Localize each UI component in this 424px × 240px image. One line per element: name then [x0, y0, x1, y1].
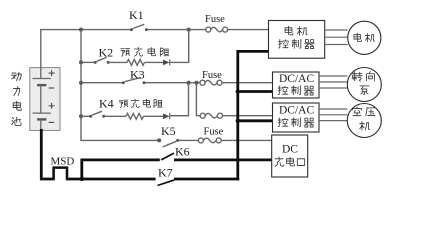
wire negative branch to DC/AC 2: [238, 119, 273, 122]
wire D2 to riser: [170, 115, 189, 117]
label K6: [175, 145, 190, 159]
fuse F3: [200, 113, 222, 118]
svg-text:K2: K2: [99, 46, 114, 60]
fuse F1: [206, 27, 228, 32]
svg-text:K3: K3: [130, 68, 145, 82]
wire K4 to R2: [104, 115, 126, 117]
box U4 DC charge port: [272, 135, 308, 177]
wire K6 to DC charge port (thick): [174, 158, 272, 161]
resistor R1: [127, 60, 144, 66]
wire F3 feed riser: [196, 83, 200, 116]
label DC/AC 2: [278, 105, 315, 128]
label K1: [129, 8, 144, 22]
wire K7 to negative bus corner (thick): [174, 178, 239, 181]
wire R2 to D2: [144, 115, 164, 117]
fuse F4: [198, 138, 221, 143]
node F3 feed: [194, 81, 198, 85]
label DC/AC 1: [278, 73, 315, 95]
wire K5 to fuse F4: [179, 139, 198, 141]
label 电机控制器: [278, 26, 314, 48]
label K5: [161, 124, 176, 138]
svg-text:DC/AC: DC/AC: [279, 105, 314, 117]
svg-text:K4: K4: [99, 97, 114, 111]
wire K3 to fuse F2: [146, 82, 201, 84]
contactor K2: [94, 57, 110, 64]
label DC 充电口: [275, 144, 305, 167]
svg-text:Fuse: Fuse: [205, 14, 225, 25]
label 转向泵: [352, 71, 374, 94]
wire left precharge bus vertical: [81, 30, 159, 141]
wire K1 to fuse F1: [148, 29, 206, 31]
svg-text:K1: K1: [129, 8, 144, 22]
label 动力电池: [11, 72, 21, 126]
node K5 tap: [157, 138, 161, 142]
node K3 tap: [79, 81, 83, 85]
negative bus vertical (thick): [238, 51, 269, 180]
wire bus to K4: [81, 115, 91, 117]
label 预充电阻 R1: [121, 47, 169, 56]
MSD disconnect: [54, 168, 67, 181]
wire D2 return riser: [171, 83, 189, 116]
box U3 DC/AC controller 2: [273, 103, 320, 132]
label 电机 (motor): [354, 33, 375, 42]
svg-text:MSD: MSD: [51, 156, 75, 168]
node diode D1 return on top bus: [187, 28, 191, 32]
label 预充电阻 R2: [119, 99, 162, 108]
svg-text:DC: DC: [282, 144, 298, 156]
label K4: [99, 97, 114, 111]
motor M circle: [348, 21, 381, 54]
steering pump circle: [347, 68, 381, 102]
svg-text:Fuse: Fuse: [204, 127, 224, 138]
box U2 DC/AC controller 1: [273, 72, 320, 98]
node negative branch to DC/AC 2: [236, 119, 240, 123]
contactor K4: [89, 111, 105, 118]
label Fuse F1: [205, 14, 225, 25]
node K2 tap: [79, 60, 83, 64]
battery pack box: [30, 68, 60, 131]
contactor K6: [161, 153, 174, 160]
node precharge bus tap: [79, 28, 83, 32]
node negative branch to DC/AC 1: [236, 89, 240, 93]
label Fuse F4: [204, 127, 224, 138]
wire battery negative riser (thick): [41, 129, 53, 179]
node K6 tap: [80, 177, 84, 181]
wire F2 to DC/AC controller 1: [222, 82, 273, 84]
svg-text:K7: K7: [158, 166, 173, 180]
label 空压机: [353, 107, 375, 130]
wire battery positive riser: [40, 30, 42, 68]
wire F3 to DC/AC controller 2: [222, 115, 272, 117]
label MSD: [51, 156, 75, 168]
svg-text:K6: K6: [175, 145, 190, 159]
contactor K7: [158, 180, 175, 185]
resistor R2: [126, 113, 143, 119]
battery cell 1: [33, 68, 55, 88]
svg-text:Fuse: Fuse: [202, 70, 222, 81]
wire bus to K3: [81, 82, 123, 84]
label K7: [158, 166, 173, 180]
wire F4 to DC charge port: [221, 139, 272, 141]
contactor K5: [163, 139, 180, 147]
wire top bus to K1: [40, 29, 131, 31]
battery cell 2: [33, 85, 55, 130]
diode D2: [163, 113, 170, 119]
label K2: [99, 46, 114, 60]
wires motor controller to motor (3-phase): [325, 30, 348, 45]
air compressor circle: [347, 104, 381, 138]
diode D1: [163, 59, 170, 65]
node K4 tap: [79, 114, 83, 118]
fuse F2: [200, 80, 222, 85]
label K3: [130, 68, 145, 82]
contactor K3: [122, 78, 146, 85]
wire D1 return riser: [170, 30, 189, 63]
node D2 return: [187, 81, 191, 85]
wires DC/AC 2 to air compressor (3-phase): [319, 109, 347, 121]
wire F1 to motor controller: [228, 29, 269, 31]
wire R1 to D1: [145, 61, 164, 63]
svg-text:DC/AC: DC/AC: [279, 73, 314, 85]
wire K2 to R1: [108, 61, 127, 63]
wires DC/AC 1 to steering pump (3-phase): [319, 76, 347, 88]
svg-text:K5: K5: [161, 124, 176, 138]
contactor K1: [130, 24, 148, 31]
wire bottom negative to K7: [67, 178, 156, 181]
wire bus to K2: [81, 61, 95, 63]
box U1 motor controller: [269, 21, 325, 59]
label Fuse F2: [202, 70, 222, 81]
wire negative branch to DC/AC 1: [238, 90, 273, 93]
wire K6 riser: [82, 160, 160, 180]
